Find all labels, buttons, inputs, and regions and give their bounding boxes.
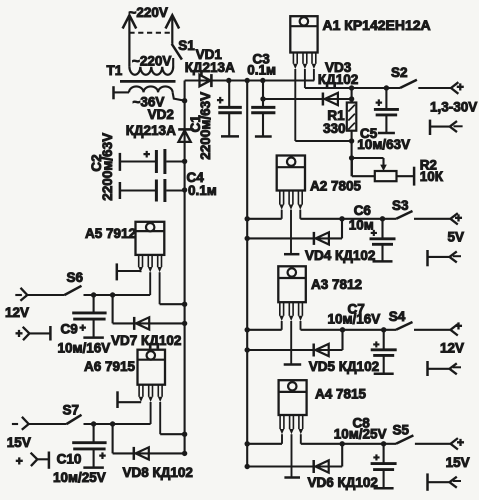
svg-text:2200м/63V: 2200м/63V bbox=[100, 133, 115, 201]
svg-text:КД213А: КД213А bbox=[185, 60, 235, 75]
svg-text:0.1м: 0.1м bbox=[188, 183, 217, 198]
svg-text:VD4 КД102: VD4 КД102 bbox=[305, 248, 375, 263]
svg-text:10м: 10м bbox=[349, 217, 374, 232]
svg-text:VD2: VD2 bbox=[148, 107, 174, 122]
svg-text:0.1м: 0.1м bbox=[247, 62, 276, 77]
svg-text:A2 7805: A2 7805 bbox=[310, 178, 362, 193]
svg-text:12V: 12V bbox=[440, 340, 464, 355]
svg-text:+: + bbox=[80, 323, 86, 335]
svg-text:КД102: КД102 bbox=[318, 72, 358, 87]
svg-text:15V: 15V bbox=[7, 435, 31, 450]
svg-text:S2: S2 bbox=[391, 65, 408, 80]
svg-text:330: 330 bbox=[323, 121, 346, 136]
svg-text:VD6 КД102: VD6 КД102 bbox=[308, 475, 378, 490]
svg-text:A5 7912: A5 7912 bbox=[85, 226, 136, 241]
svg-text:12V: 12V bbox=[5, 305, 29, 320]
svg-text:+: + bbox=[457, 435, 464, 449]
svg-text:VD5 КД102: VD5 КД102 bbox=[309, 359, 379, 374]
svg-text:A1 КР142ЕН12А: A1 КР142ЕН12А bbox=[323, 17, 431, 33]
svg-text:10м/63V: 10м/63V bbox=[357, 137, 410, 152]
svg-text:T1: T1 bbox=[107, 63, 123, 78]
svg-text:+: + bbox=[457, 80, 464, 94]
svg-text:A6 7915: A6 7915 bbox=[84, 359, 136, 374]
svg-text:10м/16V: 10м/16V bbox=[328, 311, 381, 326]
svg-text:C10: C10 bbox=[57, 451, 82, 466]
svg-text:1,3-30V: 1,3-30V bbox=[430, 100, 477, 115]
svg-text:15V: 15V bbox=[446, 455, 470, 470]
svg-text:S7: S7 bbox=[63, 402, 80, 417]
svg-text:+: + bbox=[16, 454, 23, 468]
svg-text:+: + bbox=[455, 319, 462, 333]
svg-text:10К: 10К bbox=[420, 169, 444, 184]
svg-text:VD8 КД102: VD8 КД102 bbox=[123, 465, 193, 480]
svg-text:+: + bbox=[376, 98, 382, 110]
svg-text:S3: S3 bbox=[392, 198, 409, 213]
svg-text:10м/25V: 10м/25V bbox=[334, 427, 387, 442]
svg-text:+: + bbox=[455, 211, 462, 225]
svg-text:+: + bbox=[144, 149, 150, 161]
svg-text:S5: S5 bbox=[393, 423, 410, 438]
svg-text:VD7 КД102: VD7 КД102 bbox=[111, 333, 181, 348]
svg-text:~220V: ~220V bbox=[129, 5, 168, 20]
svg-text:+: + bbox=[16, 327, 23, 341]
svg-text:5V: 5V bbox=[448, 230, 465, 245]
svg-text:2200м/63V: 2200м/63V bbox=[198, 92, 213, 160]
svg-text:+: + bbox=[217, 95, 223, 107]
svg-text:+: + bbox=[99, 451, 105, 463]
svg-text:10м/16V: 10м/16V bbox=[58, 340, 111, 355]
svg-text:S6: S6 bbox=[67, 270, 84, 285]
svg-text:~220V: ~220V bbox=[132, 53, 171, 68]
svg-text:C9: C9 bbox=[61, 322, 78, 337]
svg-text:КД213А: КД213А bbox=[126, 123, 176, 138]
svg-text:10м/25V: 10м/25V bbox=[53, 470, 106, 485]
svg-text:S4: S4 bbox=[389, 309, 406, 324]
svg-text:A3 7812: A3 7812 bbox=[311, 277, 362, 292]
svg-text:S1: S1 bbox=[178, 38, 195, 53]
svg-text:C6: C6 bbox=[354, 203, 372, 218]
svg-text:A4 7815: A4 7815 bbox=[315, 386, 367, 401]
